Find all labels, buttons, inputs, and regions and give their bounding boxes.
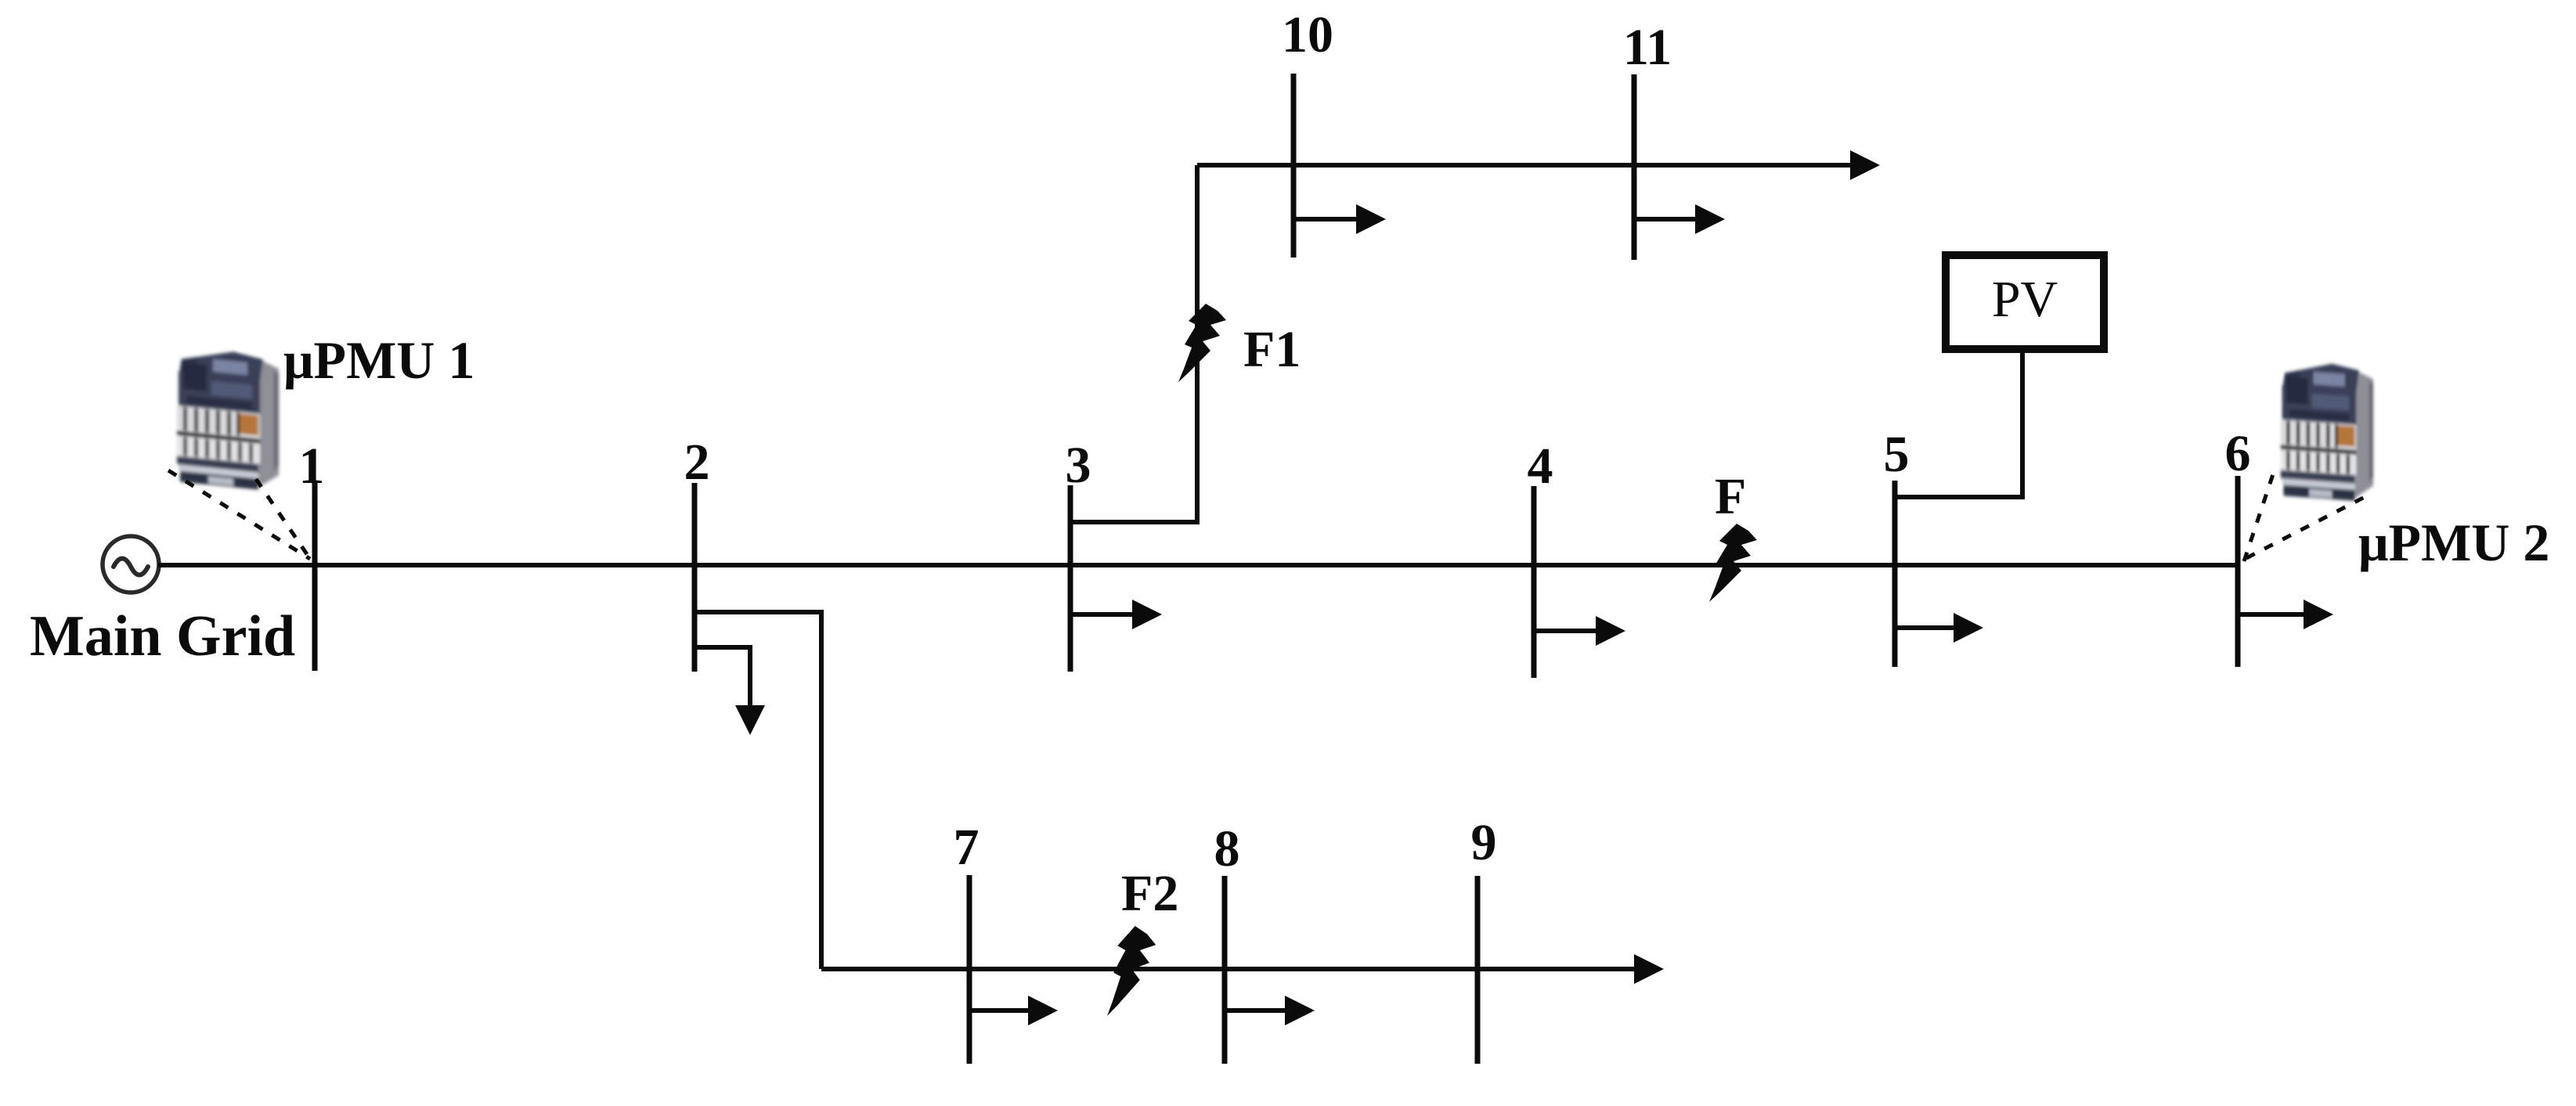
wire top lateral — [1197, 163, 1853, 168]
svg-text:7: 7 — [954, 819, 980, 876]
dashed pointer line uPMU2 right — [2246, 496, 2366, 558]
micro-PMU 1 device — [177, 346, 279, 492]
dashed pointer lines uPMU1 to bus 1 — [168, 470, 310, 559]
svg-text:4: 4 — [1528, 438, 1553, 495]
bus 9 — [1475, 876, 1481, 1064]
dashed pointer line uPMU1 right — [256, 479, 310, 559]
wire branch bus2 to lower lateral — [694, 612, 821, 969]
fault F2 bolt — [1107, 926, 1156, 1016]
wire branch bus3 to lateral 10-11 — [1070, 165, 1197, 522]
PV unit box — [1946, 255, 2104, 349]
load arrow bus 3 — [1070, 612, 1133, 617]
wire bottom lateral — [821, 967, 1636, 971]
wire PV to bus 5 — [1895, 350, 2022, 497]
svg-text:9: 9 — [1471, 814, 1497, 871]
load arrow bus 2 (down) — [694, 647, 750, 706]
svg-text:F2: F2 — [1121, 865, 1178, 922]
load arrow bus 4 — [1534, 629, 1596, 633]
arrowhead end of bottom lateral — [1634, 954, 1664, 984]
svg-text:F: F — [1715, 468, 1746, 525]
bus 11 — [1632, 74, 1637, 260]
svg-text:μPMU 1: μPMU 1 — [283, 330, 474, 390]
svg-text:μPMU 2: μPMU 2 — [2358, 513, 2549, 572]
bus 5 — [1892, 481, 1898, 667]
fault F1 bolt — [1178, 304, 1226, 382]
bus 6 — [2235, 476, 2241, 667]
load arrow bus 6 — [2238, 612, 2304, 617]
bus 2 — [692, 483, 698, 672]
load arrow bus 7 — [969, 1008, 1029, 1013]
bus 4 — [1532, 486, 1537, 678]
bus 10 — [1291, 74, 1297, 258]
fault F bolt between bus 4 and 5 — [1709, 524, 1757, 602]
svg-text:2: 2 — [684, 434, 710, 491]
wire main feeder 1-6 — [158, 563, 2239, 567]
svg-text:F1: F1 — [1243, 321, 1301, 378]
load arrow bus 5 — [1895, 625, 1954, 630]
svg-text:10: 10 — [1282, 6, 1333, 63]
svg-text:5: 5 — [1884, 426, 1910, 483]
svg-text:Main Grid: Main Grid — [30, 604, 295, 668]
bus 1 — [312, 483, 318, 671]
svg-text:11: 11 — [1623, 19, 1672, 76]
load arrow bus 10 — [1293, 217, 1357, 222]
bus 3 — [1068, 485, 1073, 672]
load arrow bus 11 — [1634, 217, 1696, 222]
svg-text:PV: PV — [1992, 271, 2058, 328]
arrowhead end of top lateral — [1850, 150, 1880, 180]
load arrow bus 8 — [1225, 1008, 1286, 1013]
svg-text:8: 8 — [1214, 820, 1240, 877]
bus 8 — [1222, 876, 1228, 1064]
svg-text:1: 1 — [299, 438, 325, 495]
svg-text:3: 3 — [1066, 437, 1091, 494]
dashed pointer lines uPMU2 to bus 6 — [2244, 474, 2273, 561]
main grid source symbol — [103, 536, 159, 593]
bus 7 — [967, 875, 972, 1064]
micro-PMU 2 device — [2281, 360, 2373, 502]
svg-text:6: 6 — [2225, 425, 2251, 482]
